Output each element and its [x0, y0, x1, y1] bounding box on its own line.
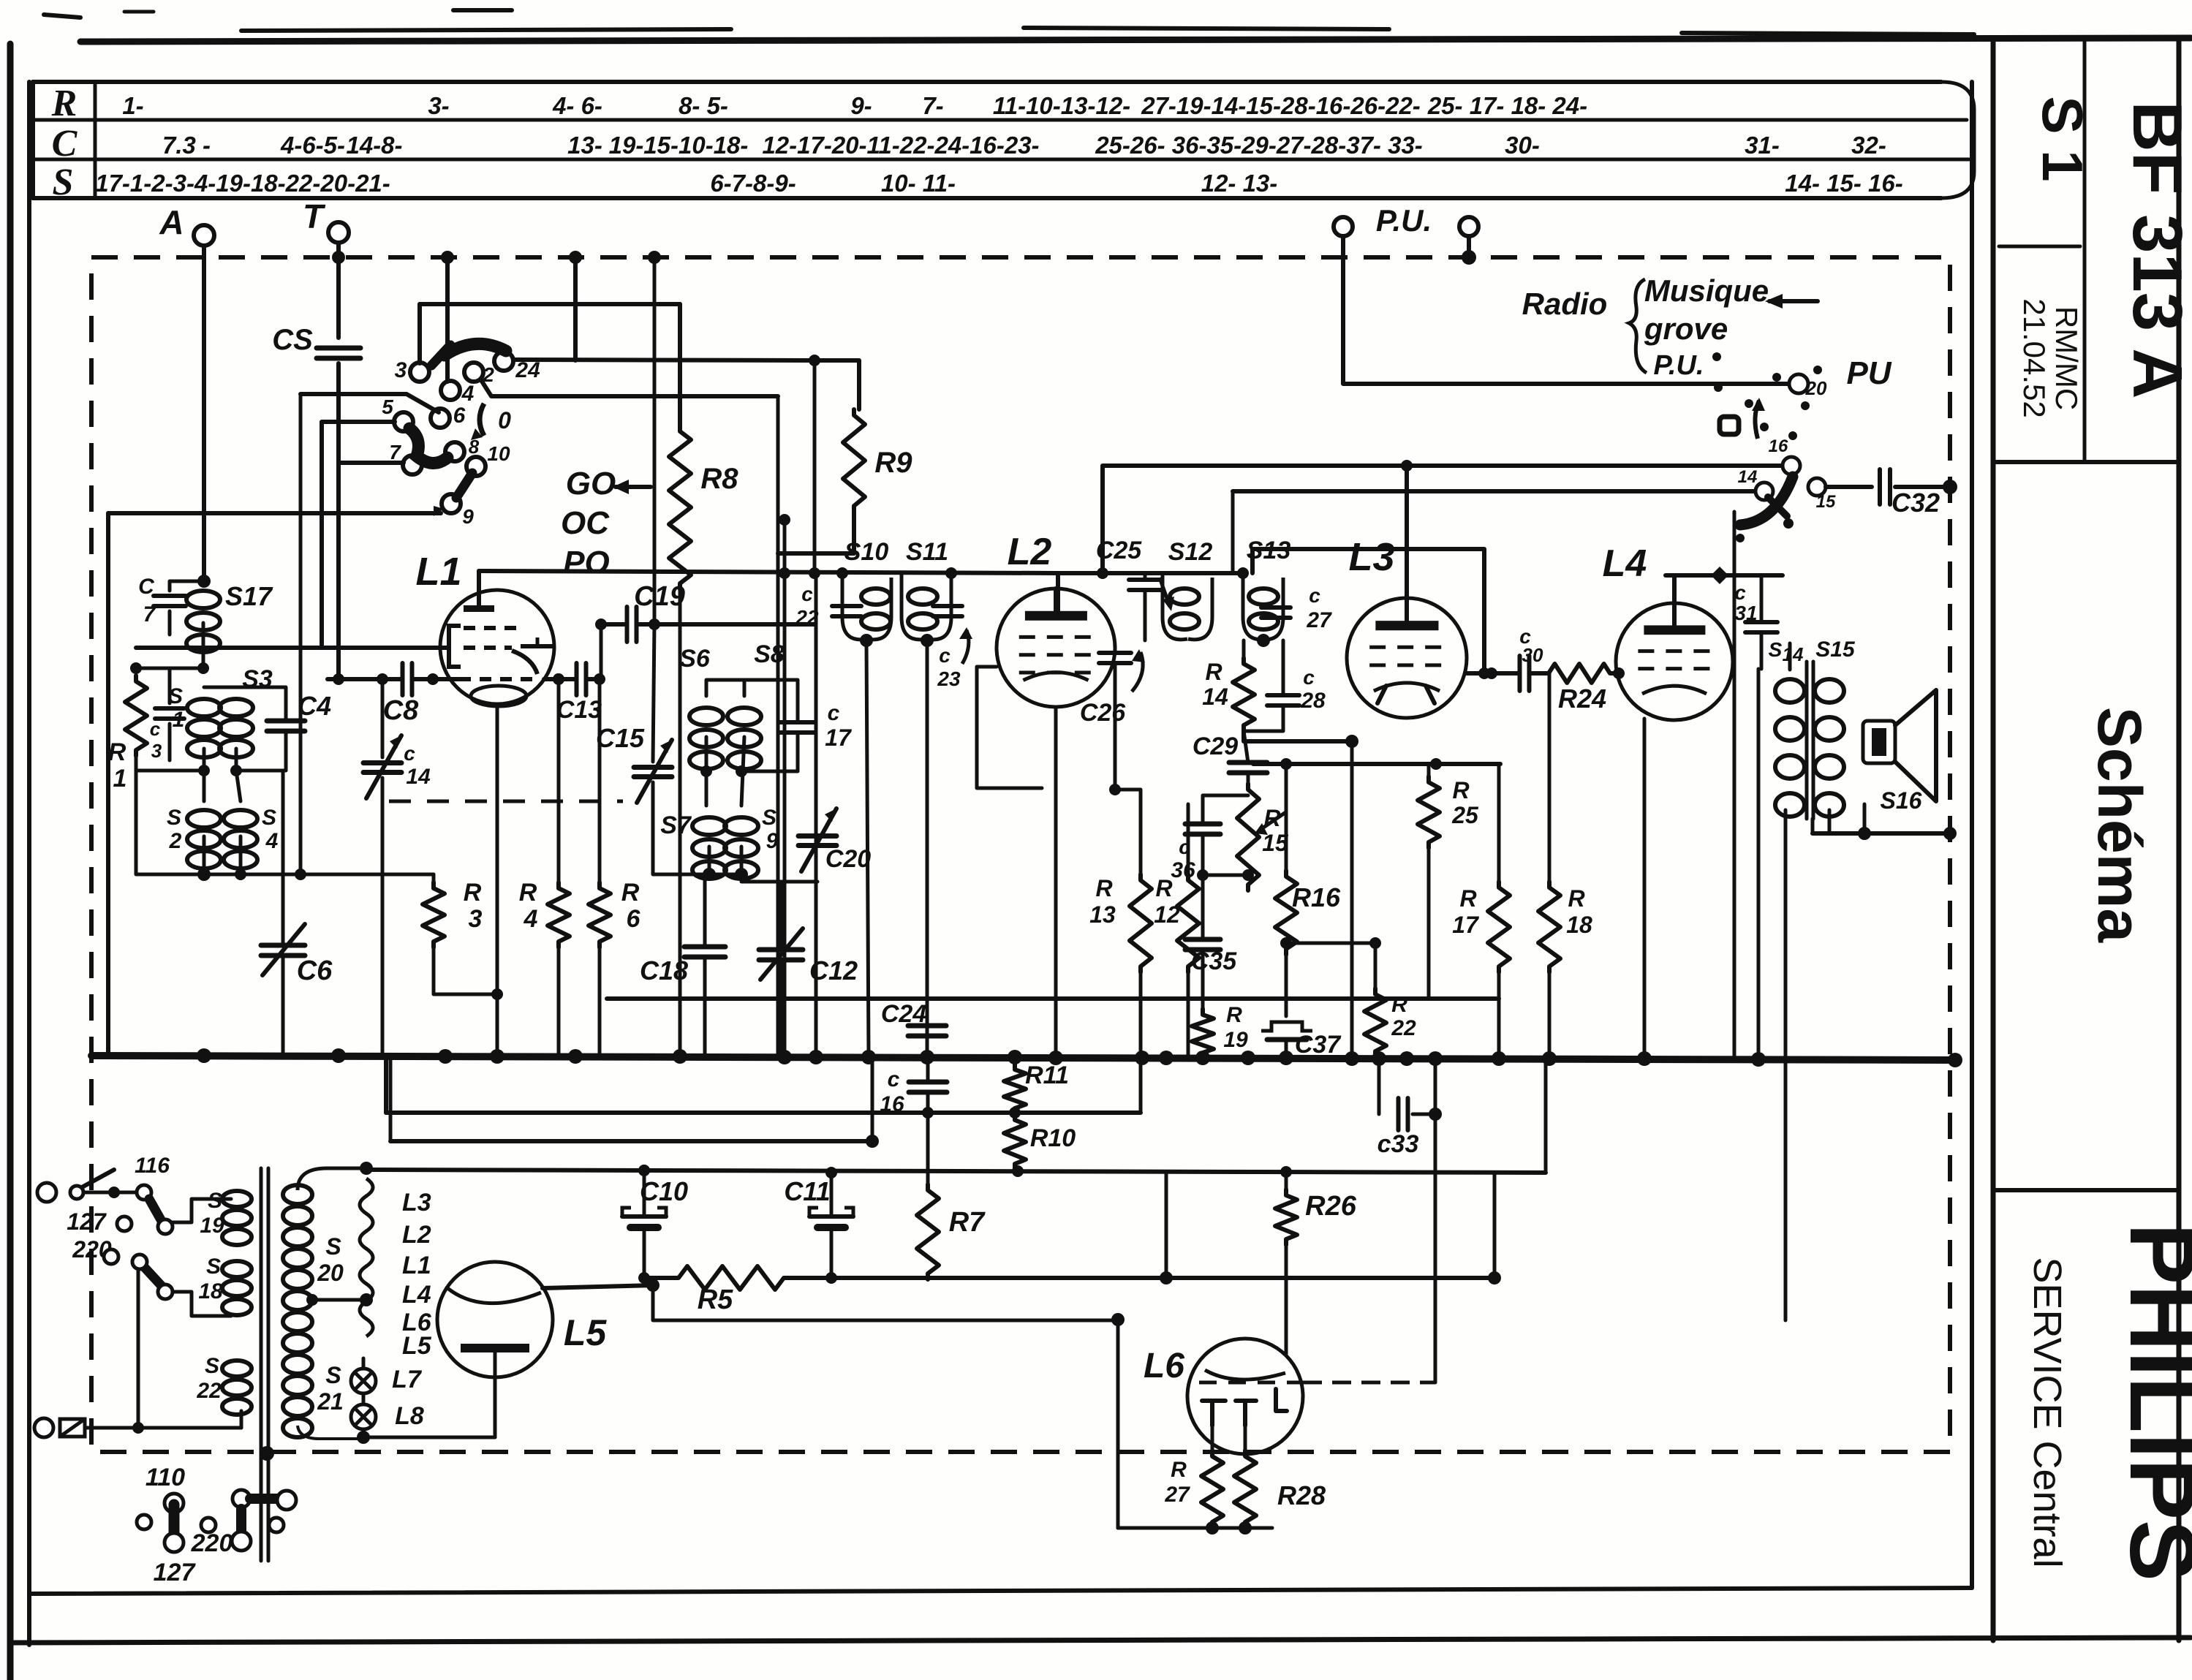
wire x2249 — [1643, 719, 1647, 1056]
page bottom outer border — [10, 1638, 2191, 1643]
svg-text:6: 6 — [627, 905, 641, 933]
svg-text:C19: C19 — [634, 581, 685, 612]
wire R26 v — [1285, 1173, 1288, 1354]
wire R12 down — [1187, 972, 1190, 1056]
svg-text:C: C — [138, 575, 155, 599]
capacitor C33 — [1377, 1098, 1419, 1158]
wire 5 left — [322, 422, 395, 648]
R15 wiper — [1255, 811, 1287, 835]
wire C6 up — [281, 771, 285, 945]
page left inner frame — [27, 82, 31, 1645]
label 127 — [67, 1208, 132, 1235]
svg-text:C32: C32 — [1891, 488, 1940, 518]
selector arrow — [1752, 398, 1765, 439]
table S row group 4 — [1785, 170, 1902, 197]
capacitor C30 — [1519, 625, 1543, 691]
wire to contact 16 — [1097, 460, 1783, 579]
sidebar text RM/MC — [2017, 298, 2084, 418]
svg-text:R: R — [464, 879, 482, 907]
wire T down — [336, 243, 341, 338]
table C row group 2 — [346, 132, 402, 159]
svg-text:127: 127 — [67, 1208, 107, 1235]
label tap L2 — [402, 1221, 431, 1249]
resistor R28 — [1234, 1450, 1326, 1528]
svg-text:OC: OC — [561, 505, 610, 541]
label PO — [563, 545, 610, 580]
wire R16 up — [1285, 764, 1288, 871]
page top border — [44, 10, 2191, 42]
wire S3 grid y886 — [136, 646, 449, 650]
svg-text:PO: PO — [563, 545, 610, 580]
wire C33 right — [1413, 1108, 1442, 1121]
wire below CS — [336, 363, 341, 676]
label tap L3 — [402, 1189, 431, 1217]
wire C8 to L1 — [414, 673, 459, 685]
wire S15 bottom — [1813, 810, 1829, 833]
resistor R18 — [1538, 882, 1592, 972]
svg-text:C15: C15 — [596, 723, 645, 753]
wire L3 anode — [1405, 466, 1409, 598]
svg-text:1-: 1- — [122, 92, 143, 119]
svg-text:C37: C37 — [1295, 1031, 1342, 1059]
table R row group 0 — [122, 92, 143, 119]
main inner frame bottom — [29, 1588, 1972, 1594]
wire L6 grid dash out — [1303, 1381, 1435, 1385]
wire L1 grid right — [544, 677, 575, 681]
svg-text:C29: C29 — [1193, 733, 1238, 760]
svg-text:R8: R8 — [700, 463, 738, 495]
wire 6 diagonal — [301, 394, 439, 412]
label S16 — [1881, 787, 1922, 814]
svg-text:R: R — [1171, 1458, 1187, 1482]
wire S15 top — [1829, 643, 1830, 670]
wire y1366 — [607, 996, 1499, 1001]
resistor R11 — [1004, 1062, 1069, 1114]
node S11 bottom — [921, 634, 934, 1056]
tube L5 (rectifier) — [437, 1262, 553, 1377]
wire x1886 below bus — [1377, 1060, 1381, 1114]
resistor R8 — [669, 425, 738, 589]
svg-text:28: 28 — [1300, 689, 1326, 713]
svg-text:4: 4 — [524, 905, 538, 933]
bus junction x1886 — [1372, 1051, 1386, 1066]
svg-text:A: A — [159, 203, 184, 241]
resistor R24 — [1543, 664, 1616, 714]
label L3 — [1348, 535, 1394, 579]
svg-text:7.3 -: 7.3 - — [162, 132, 211, 159]
coil S20 — [283, 1185, 344, 1352]
svg-text:25: 25 — [1451, 802, 1479, 828]
label tap L4 — [402, 1281, 431, 1309]
wire C29 bus — [1247, 773, 1250, 784]
wire C6 down — [281, 956, 285, 1056]
table S row group 0 — [95, 170, 390, 197]
svg-text:C24: C24 — [881, 1000, 926, 1028]
primary box — [191, 1236, 192, 1253]
svg-text:c: c — [1309, 584, 1320, 607]
bus junction x1849 — [1345, 1051, 1359, 1066]
wire C13 right — [588, 618, 607, 679]
svg-text:R7: R7 — [949, 1207, 986, 1238]
contact 14 — [1738, 467, 1773, 500]
table letter S — [53, 162, 74, 203]
wire C25 — [1058, 573, 1145, 640]
table letter R — [51, 83, 78, 124]
resistor R6 — [589, 879, 641, 947]
svg-text:Musique: Musique — [1644, 273, 1769, 308]
table R row group 5 — [922, 92, 943, 119]
svg-text:10: 10 — [487, 442, 510, 465]
svg-text:R: R — [1452, 777, 1469, 803]
wire R7 — [926, 1113, 930, 1184]
label PU — [1846, 355, 1891, 391]
contact 8 — [445, 436, 480, 461]
capacitor C31 — [1734, 581, 1777, 632]
svg-text:6-7-8-9-: 6-7-8-9- — [710, 170, 795, 197]
svg-text:S: S — [167, 806, 181, 830]
contact 6 — [431, 404, 466, 428]
mains terminal — [37, 1183, 77, 1202]
capacitor C7 — [138, 575, 186, 627]
bus junction x1073 — [777, 1050, 792, 1064]
svg-text:12- 13-: 12- 13- — [1201, 170, 1278, 197]
svg-text:C25: C25 — [1096, 537, 1142, 564]
switch wire from T — [339, 676, 380, 677]
wire bottom term — [85, 1422, 241, 1434]
table R row group 1 — [428, 92, 449, 119]
tube L4 — [1616, 603, 1733, 720]
svg-text:30: 30 — [1522, 644, 1543, 666]
svg-text:c: c — [801, 583, 813, 605]
wire PU right down — [1462, 236, 1476, 265]
svg-text:1: 1 — [113, 765, 127, 792]
wire C11 — [825, 1167, 837, 1284]
wire C24 — [926, 999, 929, 1056]
wire C7 loop — [170, 581, 204, 635]
capacitor C4 — [267, 691, 331, 731]
svg-text:c: c — [888, 1067, 900, 1091]
capacitor C35 — [1185, 939, 1237, 975]
wire y1604 — [366, 1165, 1546, 1178]
wire R10 bottom — [1013, 1170, 1017, 1171]
resistor R12 — [1154, 874, 1199, 972]
label GO — [566, 466, 651, 502]
wire v x411 — [299, 394, 303, 874]
svg-text:L4: L4 — [1603, 542, 1647, 585]
svg-text:27-19-14-15-28-16-26-22-: 27-19-14-15-28-16-26-22- — [1141, 92, 1421, 119]
svg-text:R5: R5 — [698, 1284, 733, 1315]
svg-text:L1: L1 — [402, 1252, 431, 1279]
table C row group 5 — [762, 132, 1039, 159]
svg-text:R10: R10 — [1030, 1124, 1076, 1152]
coil S13 — [1243, 537, 1290, 640]
wire L3 to C30 — [1467, 667, 1519, 679]
capacitor C37 — [1261, 1022, 1342, 1059]
svg-text:L1: L1 — [415, 550, 461, 594]
svg-text:R: R — [1155, 875, 1172, 901]
wire C28 — [1244, 640, 1283, 731]
table S row group 1 — [710, 170, 795, 197]
coil S19 — [200, 1189, 252, 1245]
coil S22 — [196, 1354, 252, 1415]
svg-text:C11: C11 — [784, 1176, 830, 1206]
wire 2 right — [481, 380, 778, 396]
wire v x787 top — [569, 251, 582, 360]
transformer core — [261, 1168, 268, 1561]
wire S21 bottom — [298, 1426, 360, 1439]
wire v x1116 low — [815, 573, 818, 1056]
svg-text:S15: S15 — [1815, 637, 1856, 662]
dashed enclosure box — [91, 257, 1950, 1452]
wire C26 — [1114, 646, 1117, 790]
svg-text:C: C — [52, 123, 78, 164]
capacitor C27 — [1261, 584, 1332, 632]
bus junction x609 — [438, 1049, 453, 1064]
bus junction x2119 — [1542, 1051, 1557, 1066]
contact 2a — [132, 1255, 147, 1269]
coil S8 — [727, 640, 785, 769]
svg-text:c33: c33 — [1377, 1130, 1419, 1158]
svg-text:c: c — [828, 701, 840, 725]
table C row group 6 — [1095, 132, 1423, 159]
wire R27R28 bottom — [1118, 1411, 1272, 1535]
wire R24 join — [1530, 667, 1625, 679]
svg-text:S10: S10 — [844, 538, 889, 566]
terminal P.U. right — [1459, 217, 1478, 236]
wire R13 top — [1109, 784, 1141, 874]
svg-text:R9: R9 — [874, 447, 912, 479]
svg-text:T: T — [303, 197, 326, 235]
coil S15 — [1815, 637, 1856, 817]
svg-text:9: 9 — [462, 505, 474, 528]
svg-text:1: 1 — [173, 708, 185, 732]
label L5 — [564, 1312, 608, 1353]
terminal A — [159, 203, 214, 246]
wire R25 — [1427, 764, 1431, 999]
svg-text:R: R — [1391, 993, 1407, 1017]
coil S1 — [168, 684, 221, 757]
coil S12 — [1163, 538, 1212, 640]
svg-text:7-: 7- — [922, 92, 943, 119]
svg-text:12: 12 — [1154, 901, 1180, 928]
svg-text:S: S — [1769, 638, 1783, 661]
resistor R1 — [108, 676, 147, 792]
wire L4 cathode — [1674, 720, 1675, 738]
capacitor C13 — [553, 663, 602, 724]
table R row group 2 — [552, 92, 602, 119]
svg-text:22: 22 — [1391, 1016, 1416, 1040]
wire core bottom v — [266, 1437, 268, 1453]
wire S2S4 top — [204, 771, 241, 801]
capacitor C16 — [880, 1067, 947, 1116]
svg-text:R: R — [1205, 659, 1222, 685]
trimmer C15 — [596, 723, 672, 803]
bus junction x1444 — [1048, 1051, 1063, 1065]
wire C37 down — [1285, 1040, 1288, 1056]
svg-text:L8: L8 — [395, 1402, 424, 1430]
svg-text:L6: L6 — [1144, 1347, 1184, 1385]
wire speaker gnd — [1813, 763, 1957, 840]
plug link 220 — [191, 1490, 296, 1557]
wire L2 anode — [1056, 573, 1060, 612]
resistor R26 — [1275, 1189, 1357, 1245]
wire R18 — [1548, 673, 1552, 1056]
svg-text:7: 7 — [143, 602, 156, 627]
resistor R19 — [1192, 1003, 1248, 1059]
svg-text:C26: C26 — [1080, 699, 1126, 727]
svg-text:S11: S11 — [906, 538, 948, 566]
svg-text:P.U.: P.U. — [1653, 350, 1704, 381]
svg-text:Schéma: Schéma — [2085, 707, 2154, 943]
svg-text:23: 23 — [937, 667, 961, 690]
svg-text:S8: S8 — [754, 640, 785, 668]
switch lever 2-24 band — [431, 344, 506, 366]
sidebar h-divider philips — [1993, 1188, 2179, 1192]
coil S17 — [186, 581, 273, 652]
wire C29 up — [1244, 731, 1248, 763]
svg-text:20: 20 — [317, 1260, 344, 1286]
wire S14 top — [1788, 643, 1792, 670]
svg-text:3: 3 — [469, 905, 483, 933]
svg-text:BF 313 A: BF 313 A — [2118, 101, 2192, 398]
wire R8 up — [678, 304, 682, 425]
coil S7 — [660, 811, 726, 879]
mains switch lever — [70, 1170, 114, 1199]
contact 16 — [1769, 436, 1800, 474]
trimmer C20 — [798, 809, 871, 873]
svg-text:CS: CS — [272, 324, 313, 356]
label OC — [561, 505, 610, 541]
resistor R16 — [1275, 871, 1341, 955]
table R row group 6 — [993, 92, 1130, 119]
sidebar text Schema — [2085, 707, 2154, 943]
svg-text:S: S — [168, 684, 183, 708]
label L6 — [1144, 1347, 1184, 1385]
contact 2b — [158, 1284, 173, 1299]
wire R6 up — [594, 673, 605, 882]
svg-text:c: c — [1303, 666, 1315, 689]
wire C35 — [1201, 875, 1205, 1009]
bus junction x1963 — [1428, 1051, 1443, 1066]
fuse symbol — [60, 1419, 85, 1437]
svg-text:R: R — [1226, 1003, 1242, 1027]
svg-text:14: 14 — [1738, 467, 1758, 487]
coil S18 — [198, 1255, 252, 1315]
bus junction x1116 — [809, 1050, 823, 1064]
wire coils frame — [252, 1170, 263, 1180]
svg-text:4-6-5-: 4-6-5- — [280, 132, 345, 159]
resistor R7 — [917, 1184, 986, 1279]
svg-text:27: 27 — [1306, 608, 1332, 632]
wire x2044 v — [1493, 1173, 1497, 1278]
wire L2 cathode — [1054, 707, 1058, 1056]
wire R17 — [1497, 764, 1501, 1056]
annotation musique arrow — [1765, 294, 1818, 309]
sidebar right border — [2177, 39, 2182, 1641]
resistor R5 — [673, 1266, 790, 1315]
table C row group 8 — [1745, 132, 1780, 159]
svg-text:19: 19 — [200, 1214, 224, 1238]
wire R4R6 bottom — [559, 947, 600, 1056]
bus junction x1562 — [1135, 1051, 1149, 1065]
wire R8 down — [679, 589, 682, 1056]
table frame — [33, 82, 1974, 198]
wire x2405 — [1757, 669, 1761, 1056]
svg-text:13: 13 — [1089, 901, 1116, 928]
voice coil — [1863, 721, 1895, 763]
svg-text:4: 4 — [265, 829, 279, 853]
arrow C25 — [1160, 578, 1174, 611]
wire left inner v x148 — [106, 513, 110, 1056]
tube L2 — [997, 589, 1115, 707]
wire C8 left — [328, 673, 401, 685]
table C row group 1 — [280, 132, 345, 159]
table C row group 7 — [1505, 132, 1540, 159]
coil S9 — [725, 806, 779, 879]
contact 20 — [1789, 374, 1827, 399]
svg-text:S: S — [53, 162, 74, 203]
resistor R4 — [519, 879, 570, 947]
svg-text:C4: C4 — [298, 691, 331, 721]
wire lamps v — [357, 1393, 370, 1444]
svg-text:27: 27 — [1164, 1483, 1190, 1507]
wire C4 — [204, 680, 286, 771]
wire y1561 — [390, 1060, 879, 1148]
wire R16-R22 link — [1286, 937, 1381, 949]
svg-text:5: 5 — [382, 396, 393, 418]
wire C31 — [1760, 575, 1764, 669]
bus junction x1388 — [1008, 1050, 1022, 1064]
svg-text:25- 17- 18- 24-: 25- 17- 18- 24- — [1427, 92, 1587, 119]
main inner frame right — [1970, 82, 1974, 1588]
coil S10 — [842, 538, 891, 640]
lamp L7 — [351, 1366, 423, 1393]
svg-text:c: c — [150, 718, 161, 740]
svg-text:L3: L3 — [1348, 535, 1394, 579]
svg-text:16: 16 — [1769, 436, 1788, 456]
svg-text:31-: 31- — [1745, 132, 1780, 159]
svg-text:S 1: S 1 — [2030, 96, 2095, 181]
svg-text:R: R — [519, 879, 537, 907]
svg-text:c: c — [1734, 581, 1746, 604]
svg-text:21: 21 — [317, 1388, 344, 1415]
svg-text:S: S — [208, 1189, 222, 1213]
capacitor CS — [272, 324, 360, 358]
wire R22 up — [1374, 943, 1377, 988]
svg-text:SERVICE Central: SERVICE Central — [2025, 1257, 2069, 1567]
svg-text:32-: 32- — [1851, 132, 1886, 159]
switch arc 0 — [471, 404, 511, 440]
svg-text:S12: S12 — [1168, 538, 1213, 566]
svg-text:L2: L2 — [402, 1221, 431, 1249]
svg-text:12-17-20-11-22-24-16-23-: 12-17-20-11-22-24-16-23- — [762, 132, 1039, 159]
contact 3 — [395, 358, 429, 382]
contact 7 — [389, 441, 422, 474]
wire S3 top to S — [236, 686, 286, 688]
table R row group 4 — [850, 92, 872, 119]
wire S13 to detector — [1252, 549, 1490, 679]
selector square — [1720, 417, 1739, 434]
switch lever 9-10 — [456, 473, 472, 498]
coil S2 — [167, 806, 221, 869]
svg-text:116: 116 — [135, 1154, 170, 1178]
annotation Musique — [1644, 273, 1769, 308]
wire x713 v — [521, 730, 522, 804]
svg-text:110: 110 — [145, 1464, 185, 1491]
svg-text:14: 14 — [406, 765, 431, 789]
svg-text:4- 6-: 4- 6- — [552, 92, 602, 119]
resistor R14 — [1202, 658, 1255, 731]
